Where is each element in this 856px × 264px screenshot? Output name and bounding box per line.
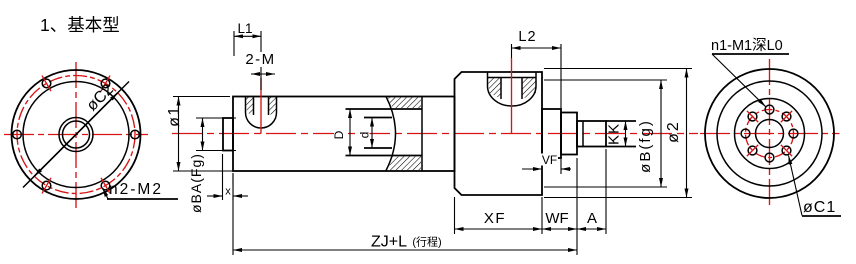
svg-text:øB(fg): øB(fg) [637, 119, 654, 173]
svg-text:L2: L2 [518, 29, 536, 45]
svg-text:1、基本型: 1、基本型 [40, 15, 120, 35]
svg-text:XF: XF [484, 210, 506, 227]
svg-text:WF: WF [545, 210, 568, 227]
svg-text:ZJ+L: ZJ+L [371, 234, 407, 251]
svg-text:øC1: øC1 [803, 199, 836, 216]
svg-text:(行程): (行程) [412, 236, 441, 249]
svg-text:ø1: ø1 [166, 105, 183, 127]
svg-text:D: D [332, 130, 346, 139]
svg-text:2-M: 2-M [245, 51, 275, 68]
svg-text:n2-M2: n2-M2 [109, 181, 163, 198]
svg-text:d: d [358, 132, 372, 139]
svg-text:VF: VF [542, 153, 557, 167]
svg-text:ø2: ø2 [665, 120, 682, 143]
svg-text:x: x [225, 186, 231, 198]
svg-text:L1: L1 [237, 21, 252, 36]
svg-text:KK: KK [606, 123, 623, 145]
svg-text:øBA(Fg): øBA(Fg) [188, 153, 204, 213]
svg-text:A: A [587, 210, 597, 227]
svg-text:n1-M1深L0: n1-M1深L0 [711, 37, 783, 54]
